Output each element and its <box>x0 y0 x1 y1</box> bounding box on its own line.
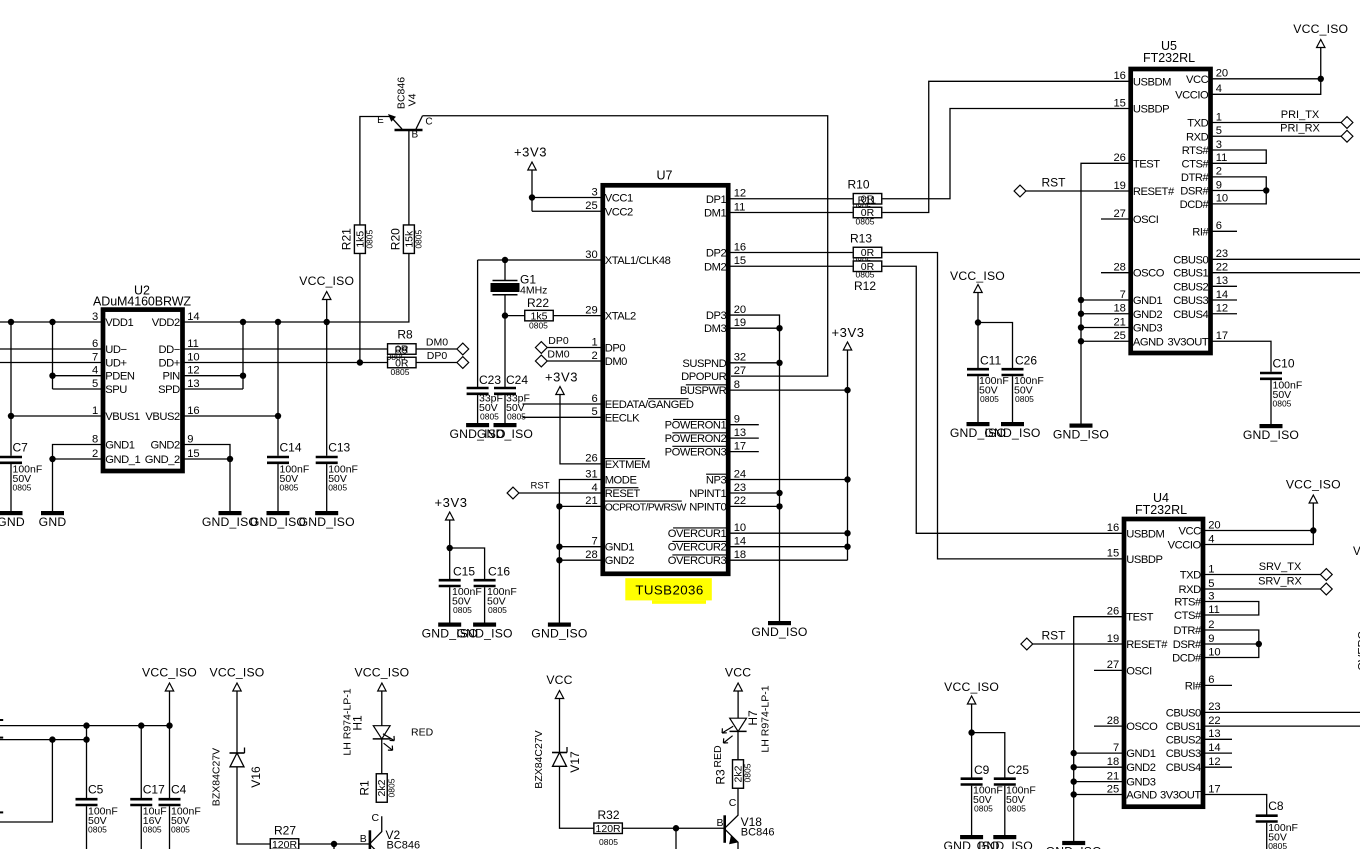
svg-text:OCPROT/PWRSW: OCPROT/PWRSW <box>605 502 687 513</box>
svg-text:VCC_ISO: VCC_ISO <box>142 666 197 680</box>
svg-text:VDD1: VDD1 <box>105 317 133 329</box>
svg-text:12: 12 <box>1208 756 1220 768</box>
wire 3V3OUT to C10 <box>1213 341 1272 372</box>
svg-text:C4: C4 <box>171 783 187 797</box>
svg-text:GND3: GND3 <box>1126 777 1156 789</box>
wire 3V3OUT to C8 <box>1205 795 1267 815</box>
wire R12 to USBDM of U4 <box>883 266 1125 533</box>
svg-text:21: 21 <box>1113 316 1125 328</box>
svg-text:C11: C11 <box>980 354 1001 368</box>
wire U4 GND rows <box>1074 752 1122 754</box>
svg-text:9: 9 <box>1216 179 1222 191</box>
svg-text:H7: H7 <box>746 710 760 726</box>
svg-text:16: 16 <box>734 241 746 253</box>
capacitor C25 <box>994 777 1016 780</box>
svg-text:C17: C17 <box>143 783 165 797</box>
wire U5 TEST to ground <box>1081 163 1129 424</box>
wire RTS/CTS loop <box>1213 150 1267 163</box>
svg-text:CBUS0: CBUS0 <box>1173 254 1208 266</box>
IC U4 box <box>1124 519 1203 807</box>
svg-text:DTR#: DTR# <box>1173 625 1202 637</box>
svg-text:7: 7 <box>591 536 597 548</box>
svg-text:CBUS1: CBUS1 <box>1166 721 1201 733</box>
svg-text:12: 12 <box>734 188 746 200</box>
svg-text:23: 23 <box>1208 701 1220 713</box>
svg-text:V16: V16 <box>249 766 263 788</box>
svg-text:11: 11 <box>734 201 746 213</box>
svg-text:VCC_ISO: VCC_ISO <box>1286 478 1341 492</box>
svg-text:3: 3 <box>92 311 98 323</box>
zener diode V17 BZX84C27V <box>559 699 561 753</box>
wire R27 to V2 base <box>299 843 369 845</box>
svg-text:17: 17 <box>734 440 746 452</box>
svg-text:0805: 0805 <box>743 763 753 782</box>
svg-text:GND_ISO: GND_ISO <box>1046 845 1102 849</box>
wire loop to edge <box>0 740 52 822</box>
svg-text:14: 14 <box>734 536 746 548</box>
svg-text:RXD: RXD <box>1179 584 1202 596</box>
svg-text:0805: 0805 <box>856 270 875 280</box>
wire C9 to gnd <box>971 786 973 835</box>
svg-text:USBDM: USBDM <box>1126 528 1164 540</box>
svg-text:RST: RST <box>531 481 550 492</box>
svg-text:USBDP: USBDP <box>1126 554 1162 566</box>
svg-text:5: 5 <box>92 378 98 390</box>
wire C25 to gnd <box>1004 786 1006 835</box>
svg-text:DP0: DP0 <box>605 343 626 355</box>
wire NPINT1 row <box>731 492 780 494</box>
svg-text:GND1: GND1 <box>1126 748 1156 760</box>
svg-text:10: 10 <box>734 522 746 534</box>
svg-text:DP1: DP1 <box>706 194 727 206</box>
svg-text:BUSPWR: BUSPWR <box>680 385 727 397</box>
resistor R21 1k5 <box>354 225 365 254</box>
svg-text:R10: R10 <box>847 178 869 192</box>
svg-text:6: 6 <box>1216 220 1222 232</box>
svg-text:SPU: SPU <box>105 384 127 396</box>
svg-text:8: 8 <box>734 379 740 391</box>
svg-text:32: 32 <box>734 352 746 364</box>
svg-text:UD−: UD− <box>105 344 126 356</box>
svg-text:B: B <box>411 130 418 141</box>
svg-text:25: 25 <box>585 200 597 212</box>
svg-text:SRV_RX: SRV_RX <box>1258 576 1302 588</box>
svg-text:25: 25 <box>1107 783 1119 795</box>
wire SPU <box>53 388 102 390</box>
svg-text:3: 3 <box>591 186 597 198</box>
svg-text:0805: 0805 <box>480 412 499 422</box>
wire POWERON stubs <box>731 424 759 426</box>
svg-text:3V3OUT: 3V3OUT <box>1167 336 1208 348</box>
wire R21 to DP0 net <box>359 253 361 362</box>
wire VBUS2 row <box>184 415 278 417</box>
svg-text:GND2: GND2 <box>1126 762 1156 774</box>
svg-text:POWERON3: POWERON3 <box>665 447 727 459</box>
wire VDD1 to C7 vertical <box>10 322 12 456</box>
svg-text:SRV_TX: SRV_TX <box>1259 561 1302 573</box>
wire U4 CBUS1 out <box>1205 725 1360 727</box>
ground GND_ISO under C9 <box>960 835 983 839</box>
svg-text:DSR#: DSR# <box>1173 639 1202 651</box>
svg-text:1: 1 <box>591 336 597 348</box>
svg-text:GND_ISO: GND_ISO <box>456 626 512 640</box>
U4 RI stub <box>1205 684 1232 686</box>
svg-text:RED: RED <box>411 727 434 739</box>
capacitor C23 33pF <box>467 387 489 390</box>
svg-text:GND: GND <box>39 515 67 529</box>
svg-text:V17: V17 <box>568 751 582 773</box>
power VCC_ISO above H1 <box>378 683 386 691</box>
resistor R12 0R <box>853 261 882 272</box>
svg-text:0805: 0805 <box>507 412 526 422</box>
ground GND_ISO under C24 <box>494 423 517 427</box>
capacitor C14 <box>267 456 289 459</box>
svg-text:POWERON1: POWERON1 <box>665 420 727 432</box>
ground GND under C7 <box>0 511 23 515</box>
svg-text:19: 19 <box>1107 633 1119 645</box>
resistor R11 0R <box>853 207 882 218</box>
svg-text:NP3: NP3 <box>706 475 727 487</box>
svg-text:U7: U7 <box>657 169 673 183</box>
svg-text:26: 26 <box>1113 152 1125 164</box>
svg-text:OSCI: OSCI <box>1133 214 1159 226</box>
svg-text:9: 9 <box>187 433 193 445</box>
svg-text:0805: 0805 <box>143 825 162 835</box>
svg-text:GND_ISO: GND_ISO <box>299 515 355 529</box>
wire GND1 pin8 <box>53 445 102 512</box>
svg-text:PRI_RX: PRI_RX <box>1280 123 1320 135</box>
wire GND2 pin9 <box>184 445 230 512</box>
svg-text:22: 22 <box>1216 262 1228 274</box>
wire C7 to GND <box>10 464 12 511</box>
ground GND under pin GND1/GND_1 <box>41 511 64 515</box>
svg-text:3V3OUT: 3V3OUT <box>1160 790 1201 802</box>
svg-text:0805: 0805 <box>529 321 548 331</box>
svg-text:26: 26 <box>1107 606 1119 618</box>
junction dots U2 left <box>8 319 14 325</box>
svg-text:6: 6 <box>591 393 597 405</box>
svg-text:R13: R13 <box>850 232 872 246</box>
ground GND_ISO under U4 <box>1062 841 1085 845</box>
svg-text:120R: 120R <box>272 839 298 849</box>
wire junction down <box>675 828 677 849</box>
svg-text:27: 27 <box>1107 659 1119 671</box>
svg-text:R22: R22 <box>527 296 549 310</box>
svg-text:LH R974-LP-1: LH R974-LP-1 <box>760 685 772 752</box>
svg-text:DP0: DP0 <box>548 335 569 347</box>
svg-text:OVERCUR3: OVERCUR3 <box>668 555 727 567</box>
svg-text:TUSB2036: TUSB2036 <box>635 583 703 598</box>
svg-text:21: 21 <box>585 495 597 507</box>
svg-text:23: 23 <box>1216 248 1228 260</box>
wire R10 to USBDP of U5 <box>883 109 1129 199</box>
svg-text:15: 15 <box>187 448 199 460</box>
svg-text:E: E <box>377 115 384 126</box>
svg-text:C: C <box>729 797 737 809</box>
svg-text:VCCIO: VCCIO <box>1168 540 1202 552</box>
svg-text:0805: 0805 <box>391 367 410 377</box>
wire U4 TEST to ground <box>1074 617 1122 843</box>
wire R9 to DP0 port <box>416 362 457 364</box>
svg-text:0805: 0805 <box>328 482 347 492</box>
svg-text:DP0: DP0 <box>427 350 448 362</box>
wire VDD1 net left <box>0 321 101 323</box>
wire V4 collector to DPOPUR <box>423 116 828 376</box>
svg-text:CBUS2: CBUS2 <box>1173 281 1208 293</box>
svg-text:RXD: RXD <box>1186 131 1209 143</box>
svg-text:16: 16 <box>1107 522 1119 534</box>
wire R8 to DM0 port <box>416 348 457 350</box>
svg-text:4: 4 <box>1216 83 1222 95</box>
svg-text:CBUS2: CBUS2 <box>1166 734 1201 746</box>
svg-text:23: 23 <box>734 482 746 494</box>
crystal G1 4MHz <box>504 260 506 281</box>
ground GND_ISO under GND_2 <box>219 511 242 515</box>
resistor R10 0R <box>853 194 882 205</box>
svg-text:0805: 0805 <box>365 229 375 248</box>
svg-text:0805: 0805 <box>1268 841 1287 849</box>
power VCC_ISO above C13 <box>323 292 331 300</box>
svg-text:27: 27 <box>734 365 746 377</box>
svg-text:13: 13 <box>734 427 746 439</box>
svg-text:11: 11 <box>1216 152 1228 164</box>
IC U5 box <box>1131 69 1211 353</box>
ground GND_ISO under C10 <box>1260 424 1283 428</box>
svg-text:R21: R21 <box>340 228 354 250</box>
svg-text:OSCO: OSCO <box>1126 721 1158 733</box>
svg-text:BZX84C27V: BZX84C27V <box>211 748 223 806</box>
capacitor C8 <box>1256 814 1278 817</box>
svg-text:0805: 0805 <box>1273 398 1292 408</box>
svg-text:CBUS4: CBUS4 <box>1166 762 1201 774</box>
svg-text:XTAL2: XTAL2 <box>605 311 636 323</box>
svg-text:C14: C14 <box>280 440 302 454</box>
port DM0 diamond <box>457 343 469 355</box>
power VCC above V17 <box>555 691 563 699</box>
IC U2 ADuM4160BRWZ box <box>103 310 183 471</box>
svg-text:4: 4 <box>1208 533 1214 545</box>
svg-text:2: 2 <box>591 350 597 362</box>
wire CBUS0 out <box>1213 258 1360 260</box>
svg-text:USBDP: USBDP <box>1133 104 1169 116</box>
U5 CBUS2-4 stubs <box>1213 285 1238 287</box>
svg-text:9: 9 <box>734 414 740 426</box>
svg-text:CBUS4: CBUS4 <box>1173 309 1208 321</box>
wire +3V3 to VCC1/VCC2 <box>531 170 533 211</box>
svg-text:15: 15 <box>1107 548 1119 560</box>
svg-text:29: 29 <box>585 304 597 316</box>
svg-text:VBUS1: VBUS1 <box>105 411 140 423</box>
svg-text:0805: 0805 <box>88 825 107 835</box>
svg-text:TEST: TEST <box>1133 158 1160 170</box>
svg-text:21: 21 <box>1107 770 1119 782</box>
svg-text:R32: R32 <box>597 808 619 822</box>
wire C26 to gnd <box>1012 376 1014 424</box>
svg-text:DM0: DM0 <box>605 356 627 368</box>
svg-text:1: 1 <box>1208 563 1214 575</box>
svg-text:+3V3: +3V3 <box>545 370 578 385</box>
junction dots U2 right <box>240 319 246 325</box>
wire UD+ from edge <box>0 362 101 364</box>
wire U4 CBUS0 out <box>1205 711 1360 713</box>
svg-text:NPINT1: NPINT1 <box>689 488 726 500</box>
svg-text:0805: 0805 <box>280 482 299 492</box>
wire UD- from edge <box>0 348 101 350</box>
wire DP2 to R13 <box>731 252 853 254</box>
wire XTAL1 net <box>478 259 601 261</box>
svg-text:13: 13 <box>187 378 199 390</box>
svg-text:DM0: DM0 <box>426 336 448 348</box>
power VCC_ISO above V16 <box>233 683 241 691</box>
svg-text:DCD#: DCD# <box>1180 199 1210 211</box>
svg-text:6: 6 <box>1208 674 1214 686</box>
svg-text:USBDM: USBDM <box>1133 76 1171 88</box>
U4 OSCO stub <box>1094 725 1122 727</box>
svg-text:GND_ISO: GND_ISO <box>477 427 533 441</box>
svg-text:28: 28 <box>585 549 597 561</box>
svg-text:GND_ISO: GND_ISO <box>1053 427 1109 441</box>
wire BUSPWR row <box>731 389 848 391</box>
svg-text:1: 1 <box>1216 111 1222 123</box>
svg-text:OSCO: OSCO <box>1133 268 1165 280</box>
svg-text:RESET: RESET <box>605 488 641 500</box>
svg-text:R8: R8 <box>397 328 413 342</box>
svg-text:18: 18 <box>734 549 746 561</box>
svg-text:11: 11 <box>187 338 199 350</box>
wire VCC_ISO rail bottom left <box>0 725 170 727</box>
wire U4 DTR/DSR/DCD tie <box>1205 630 1259 658</box>
svg-text:PRI_TX: PRI_TX <box>1281 109 1320 121</box>
svg-text:20: 20 <box>1216 68 1228 80</box>
port DP0 at U7 <box>535 342 547 354</box>
svg-text:7: 7 <box>92 351 98 363</box>
svg-text:C25: C25 <box>1007 763 1029 777</box>
svg-text:FT232RL: FT232RL <box>1143 51 1195 65</box>
svg-text:5: 5 <box>1208 578 1214 590</box>
svg-text:10: 10 <box>1216 193 1228 205</box>
svg-text:0805: 0805 <box>13 482 32 492</box>
svg-text:VBUS2: VBUS2 <box>145 411 180 423</box>
svg-text:26: 26 <box>585 453 597 465</box>
port DP0 diamond <box>457 357 469 369</box>
svg-text:5: 5 <box>1216 125 1222 137</box>
wire junction down <box>333 844 335 849</box>
svg-text:17: 17 <box>1208 783 1220 795</box>
svg-text:0805: 0805 <box>974 804 993 814</box>
svg-text:VCC: VCC <box>725 666 751 680</box>
svg-text:0805: 0805 <box>1015 394 1034 404</box>
svg-text:RED: RED <box>712 745 724 768</box>
capacitor C26 <box>1002 368 1024 371</box>
svg-text:B: B <box>360 833 367 845</box>
svg-text:VCC_ISO: VCC_ISO <box>299 274 354 288</box>
svg-text:0805: 0805 <box>453 605 472 615</box>
capacitor C4 <box>169 726 171 798</box>
svg-text:VCCIO: VCCIO <box>1175 89 1209 101</box>
svg-text:18: 18 <box>1107 756 1119 768</box>
wire VDD2 to C14 vertical <box>277 322 279 456</box>
svg-text:VCC: VCC <box>1179 526 1202 538</box>
wire PDEN/SPU tie vertical <box>52 322 54 389</box>
svg-text:GND2: GND2 <box>605 555 635 567</box>
svg-text:RESET#: RESET# <box>1126 639 1168 651</box>
wire R11 to USBDM of U5 <box>883 81 1129 212</box>
svg-text:GND1: GND1 <box>605 542 635 554</box>
LED H7 red <box>730 718 747 731</box>
svg-text:VCC2: VCC2 <box>605 206 633 218</box>
net stub marks left edge <box>0 719 3 721</box>
svg-text:BC846: BC846 <box>741 827 775 839</box>
LED H1 red <box>373 726 390 739</box>
wire RXD SRV_RX <box>1205 588 1320 590</box>
svg-text:9: 9 <box>1208 633 1214 645</box>
capacitor C17 <box>140 726 142 798</box>
svg-text:24: 24 <box>734 468 746 480</box>
svg-text:GND_ISO: GND_ISO <box>1243 428 1299 442</box>
svg-text:GND_ISO: GND_ISO <box>531 626 587 640</box>
svg-text:DD+: DD+ <box>158 358 179 370</box>
wire PIN/SPD tie <box>184 375 243 377</box>
svg-text:OVERCUR2: OVERCUR2 <box>668 542 727 554</box>
svg-text:DM2: DM2 <box>704 261 726 273</box>
svg-text:0805: 0805 <box>980 394 999 404</box>
svg-text:0805: 0805 <box>599 837 618 847</box>
wire DP1 to R10 <box>731 198 853 200</box>
svg-text:2: 2 <box>1216 166 1222 178</box>
wire OVERCUR3 row <box>731 559 848 561</box>
ground GND_ISO under C25 <box>993 835 1016 839</box>
svg-text:EXTMEM: EXTMEM <box>605 459 650 471</box>
wire U4 VCC to VCC_ISO <box>1205 530 1313 532</box>
wire VCC_ISO arrow to VDD2 and C13 <box>326 300 328 456</box>
svg-text:GND_2: GND_2 <box>145 454 180 466</box>
capacitor C15 <box>439 579 461 582</box>
wire R13 to USBDP of U4 <box>883 253 1125 559</box>
capacitor C11 <box>967 368 989 371</box>
wire VDD2 net to R20 <box>184 253 409 322</box>
svg-text:DSR#: DSR# <box>1180 186 1209 198</box>
wire VCC rail bottom left <box>0 739 87 741</box>
power VCC_ISO right of U4 <box>1309 495 1317 503</box>
svg-text:28: 28 <box>1113 262 1125 274</box>
wire GND_1 pin2 <box>53 458 102 460</box>
svg-text:15: 15 <box>1113 97 1125 109</box>
svg-text:DP3: DP3 <box>706 310 727 322</box>
svg-text:GND2: GND2 <box>1133 309 1163 321</box>
svg-text:C26: C26 <box>1015 354 1037 368</box>
capacitor C9 <box>961 777 983 780</box>
svg-text:2: 2 <box>1208 619 1214 631</box>
svg-text:VCC: VCC <box>1186 74 1209 86</box>
svg-text:16: 16 <box>187 405 199 417</box>
svg-text:+3V3: +3V3 <box>514 145 547 160</box>
svg-text:7: 7 <box>1120 289 1126 301</box>
wire C16 to gnd <box>484 587 486 624</box>
wire C11 to gnd <box>977 376 979 424</box>
svg-text:10: 10 <box>187 351 199 363</box>
svg-text:VCC_ISO: VCC_ISO <box>354 666 409 680</box>
svg-text:11: 11 <box>1208 604 1220 616</box>
svg-text:17: 17 <box>1216 330 1228 342</box>
svg-text:CTS#: CTS# <box>1174 610 1202 622</box>
svg-text:DD−: DD− <box>158 344 179 356</box>
resistor R8 0R <box>388 344 417 355</box>
svg-text:CBUS3: CBUS3 <box>1173 295 1208 307</box>
IC U7 box <box>603 185 728 574</box>
svg-text:C: C <box>372 812 380 824</box>
svg-text:V4: V4 <box>407 93 419 106</box>
capacitor C5 <box>86 726 88 798</box>
